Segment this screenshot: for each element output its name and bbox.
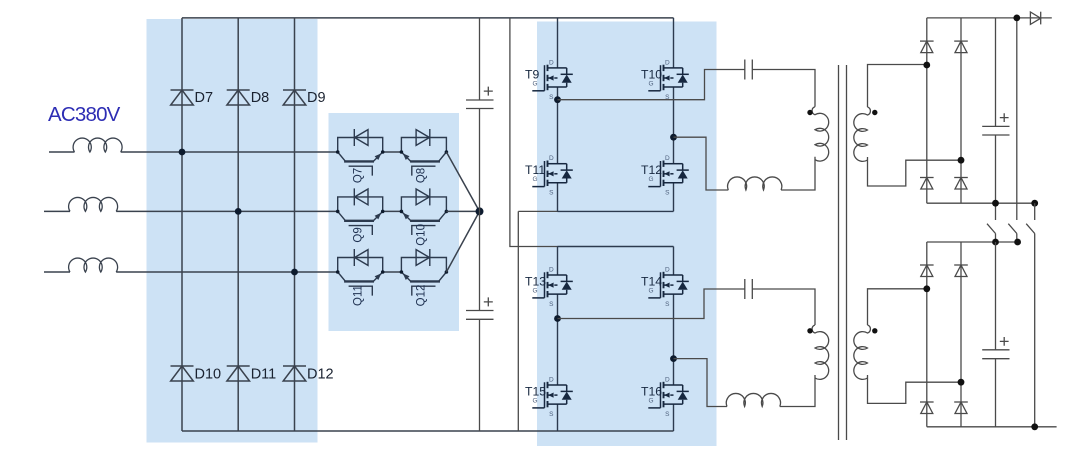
capacitor Cr2 (series resonant) — [745, 279, 753, 299]
wire: lower bridge output B — [674, 359, 728, 407]
node: Co1 negative junction — [992, 200, 999, 207]
diode: output rectifier 2 upper-right — [954, 265, 968, 277]
node: output negative junction — [1031, 423, 1038, 430]
transformer TR2 primary winding — [812, 325, 829, 379]
inductor Lr1 (series resonant) — [728, 177, 782, 190]
svg-text:T16: T16 — [641, 384, 662, 398]
svg-text:G: G — [648, 398, 653, 405]
svg-text:S: S — [549, 301, 554, 308]
transistor Q10 — [401, 188, 446, 235]
node: switch S2 lower junction — [1014, 239, 1021, 246]
node: TR2 secondary to bridge right — [958, 379, 965, 386]
inductor Lr2 (series resonant) — [726, 393, 780, 406]
wire: bottom DC bus — [182, 430, 674, 432]
svg-text:D12: D12 — [307, 367, 334, 383]
wire: Q10 output — [446, 210, 479, 212]
diode: output rectifier 1 lower-right — [954, 178, 968, 190]
transistor T11 (MOSFET) — [525, 155, 573, 197]
svg-text:G: G — [532, 176, 537, 183]
svg-text:G: G — [532, 288, 537, 295]
svg-text:D: D — [665, 59, 670, 66]
diode: output rectifier 2 lower-right — [954, 402, 968, 414]
node: TR1 secondary to bridge left — [923, 62, 930, 69]
svg-text:Q11: Q11 — [353, 285, 365, 306]
svg-text:D8: D8 — [251, 90, 270, 106]
wire: rectifier 1 legs — [927, 18, 961, 203]
wire: lower bridge rails and legs — [558, 246, 674, 248]
svg-text:G: G — [532, 80, 537, 87]
node: rail 1 end junction — [1031, 200, 1038, 207]
wire: phase C input — [44, 271, 338, 273]
transistor T12 (MOSFET) — [641, 155, 689, 197]
wire: Q8 output diagonal — [446, 152, 479, 211]
node: IGBT output star point — [476, 207, 484, 215]
svg-text:D: D — [549, 377, 554, 384]
wire: rectifier leg phase C — [294, 18, 296, 431]
transistor T9 (MOSFET) — [525, 59, 573, 101]
node: TR2 secondary to bridge left — [923, 285, 930, 292]
node: output positive junction — [1013, 15, 1020, 22]
wire: Q7-Q8 emitter link — [383, 151, 402, 153]
svg-text:S: S — [665, 301, 670, 308]
wire: Q9-Q10 emitter link — [383, 210, 402, 212]
capacitor Co1 (output filter) — [995, 18, 997, 220]
node: TR1 secondary to bridge right — [958, 157, 965, 164]
transistor Q8 — [401, 129, 446, 176]
switch S2 — [1008, 224, 1017, 242]
shaded region: MOSFET full-bridges — [537, 22, 717, 447]
wire: Cr1 to transformer TR1 — [752, 70, 815, 107]
inductor LA (phase A) — [73, 138, 122, 152]
wire: rectifier 2 negative rail — [927, 426, 1057, 428]
diode: output rectifier 1 upper-right — [954, 41, 968, 53]
wire: switch 3 upper stub — [1034, 203, 1036, 220]
svg-text:T12: T12 — [641, 163, 662, 177]
capacitor Co2 (output filter) — [995, 242, 997, 427]
shaded region: input diode rectifier — [147, 19, 318, 443]
svg-text:D: D — [549, 267, 554, 274]
wire: rectifier 1 negative rail — [927, 202, 1035, 204]
svg-text:T9: T9 — [525, 67, 539, 81]
transformer core — [839, 65, 847, 440]
wire: Lr2 to TR2 primary — [780, 375, 815, 407]
svg-text:D: D — [665, 377, 670, 384]
svg-text:AC380V: AC380V — [48, 103, 121, 126]
transistor T10 (MOSFET) — [641, 59, 689, 101]
wire: upper bridge negative return — [518, 211, 557, 431]
wire: rectifier 1 positive rail — [927, 17, 1052, 19]
wire: Q11-Q12 emitter link — [383, 271, 402, 273]
transformer TR2 secondary winding — [854, 325, 871, 379]
wire: phase B input — [44, 210, 338, 212]
wire: Lr1 to TR1 primary — [781, 157, 815, 190]
inductor LC (phase C) — [69, 258, 118, 272]
wire: TR2 secondary bottom — [868, 375, 962, 403]
wire: TR1 secondary top — [868, 65, 927, 108]
wire: lower bridge output A — [558, 289, 745, 319]
transformer TR1 primary winding — [812, 107, 829, 161]
diode: output rectifier 2 lower-left — [920, 402, 934, 414]
wire: Q12 output diagonal — [446, 211, 479, 272]
wire: phase A input — [49, 151, 338, 153]
svg-text:G: G — [532, 398, 537, 405]
svg-text:T14: T14 — [641, 274, 662, 288]
wire: rectifier 2 legs — [927, 242, 961, 427]
diode: output rectifier 1 lower-left — [920, 178, 934, 190]
shaded region: IGBT matrix — [329, 113, 460, 331]
switch S3 — [1026, 224, 1035, 427]
transistor Q12 — [401, 249, 446, 296]
svg-text:G: G — [648, 176, 653, 183]
svg-text:S: S — [665, 411, 670, 418]
wire: output positive leg — [1016, 18, 1018, 220]
node: phase B tap — [235, 208, 242, 215]
diode: output rectifier 2 upper-left — [920, 265, 934, 277]
wire: upper bridge output B — [674, 137, 729, 190]
svg-text:Q10: Q10 — [416, 224, 428, 246]
svg-text:D9: D9 — [307, 90, 326, 106]
wire: rectifier 2 positive rail — [927, 241, 1018, 243]
svg-text:S: S — [665, 190, 670, 197]
svg-text:D: D — [665, 267, 670, 274]
svg-text:D: D — [549, 155, 554, 162]
transistor Q7 — [338, 129, 383, 176]
transistor T15 (MOSFET) — [525, 377, 573, 419]
transformer TR1 secondary winding — [854, 107, 871, 161]
node: IGBT row ticks y=211.4 — [336, 210, 340, 214]
node: IGBT row ticks y=152 — [336, 150, 340, 154]
svg-text:D: D — [665, 155, 670, 162]
switch S1 — [987, 224, 996, 242]
diode D12 — [283, 366, 306, 381]
diode: output rectifier 1 upper-left — [920, 41, 934, 53]
svg-text:D11: D11 — [251, 367, 277, 383]
transistor Q11 — [338, 249, 383, 296]
svg-text:Q8: Q8 — [416, 168, 428, 183]
svg-text:D: D — [549, 59, 554, 66]
wire: upper bridge output A — [558, 70, 745, 100]
diode D10 — [171, 366, 194, 381]
node: switch S1 lower junction — [992, 239, 999, 246]
transistor T13 (MOSFET) — [525, 267, 573, 309]
svg-text:G: G — [648, 80, 653, 87]
capacitor Cr1 (series resonant) — [745, 60, 753, 80]
node: IGBT row ticks y=272 — [336, 270, 340, 274]
node: T13/T15 midpoint — [554, 315, 561, 322]
transistor T16 (MOSFET) — [641, 377, 689, 419]
diode D8 — [227, 90, 250, 105]
svg-text:S: S — [549, 411, 554, 418]
svg-text:Q9: Q9 — [353, 227, 365, 242]
svg-text:D7: D7 — [195, 90, 214, 106]
node: phase C tap — [291, 269, 298, 276]
diode D7 — [171, 90, 194, 105]
diode D9 — [283, 90, 306, 105]
node: T10/T12 midpoint — [670, 134, 677, 141]
wire: Cr2 to transformer TR2 — [752, 289, 815, 325]
wire: rectifier leg phase B — [237, 18, 239, 431]
svg-text:S: S — [549, 190, 554, 197]
svg-text:Q7: Q7 — [353, 168, 365, 183]
svg-text:T11: T11 — [525, 163, 545, 177]
svg-text:G: G — [648, 288, 653, 295]
inductor LB (phase B) — [69, 197, 118, 211]
wire: upper bridge rails and legs — [557, 18, 559, 212]
wire: top DC bus — [182, 17, 674, 19]
node: T9/T11 midpoint — [554, 96, 561, 103]
wire: rectifier leg phase A — [181, 18, 183, 431]
svg-text:Q12: Q12 — [416, 285, 428, 307]
wire: feed to lower bridge positive rail — [510, 18, 558, 247]
diode: output blocking diode — [1030, 12, 1040, 25]
transistor T14 (MOSFET) — [641, 267, 689, 309]
wire: TR2 secondary top — [868, 289, 927, 325]
node: phase A tap — [179, 149, 186, 156]
capacitor C2 (lower DC link) — [466, 311, 494, 320]
svg-text:S: S — [549, 94, 554, 101]
node: T14/T16 midpoint — [670, 355, 677, 362]
svg-text:T15: T15 — [525, 384, 546, 398]
svg-text:T10: T10 — [641, 67, 662, 81]
svg-text:D10: D10 — [195, 367, 222, 383]
diode D11 — [227, 366, 250, 381]
wire: DC-link center column — [479, 18, 481, 431]
wire: TR1 secondary bottom — [868, 157, 962, 186]
svg-text:T13: T13 — [525, 274, 546, 288]
capacitor C1 (upper DC link) — [466, 100, 494, 109]
transistor Q9 — [338, 188, 383, 235]
